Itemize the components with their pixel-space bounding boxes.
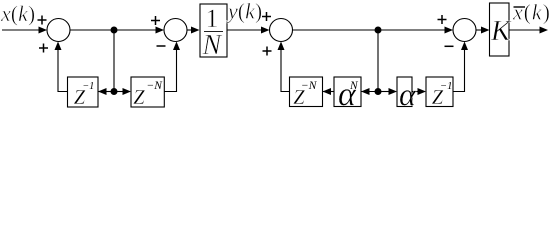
svg-text:−N: −N	[301, 80, 318, 92]
svg-text:x(k): x(k)	[0, 1, 35, 26]
svg-text:α: α	[399, 76, 417, 110]
svg-text:K: K	[490, 15, 512, 47]
svg-text:−N: −N	[147, 80, 164, 92]
svg-text:−1: −1	[440, 81, 452, 92]
svg-text:N: N	[202, 30, 223, 61]
svg-text:x(k): x(k)	[512, 0, 550, 25]
svg-text:y(k): y(k)	[226, 0, 262, 24]
svg-text:1: 1	[206, 4, 219, 33]
svg-text:N: N	[349, 80, 359, 92]
svg-text:−1: −1	[83, 81, 95, 92]
svg-text:z: z	[133, 76, 146, 110]
